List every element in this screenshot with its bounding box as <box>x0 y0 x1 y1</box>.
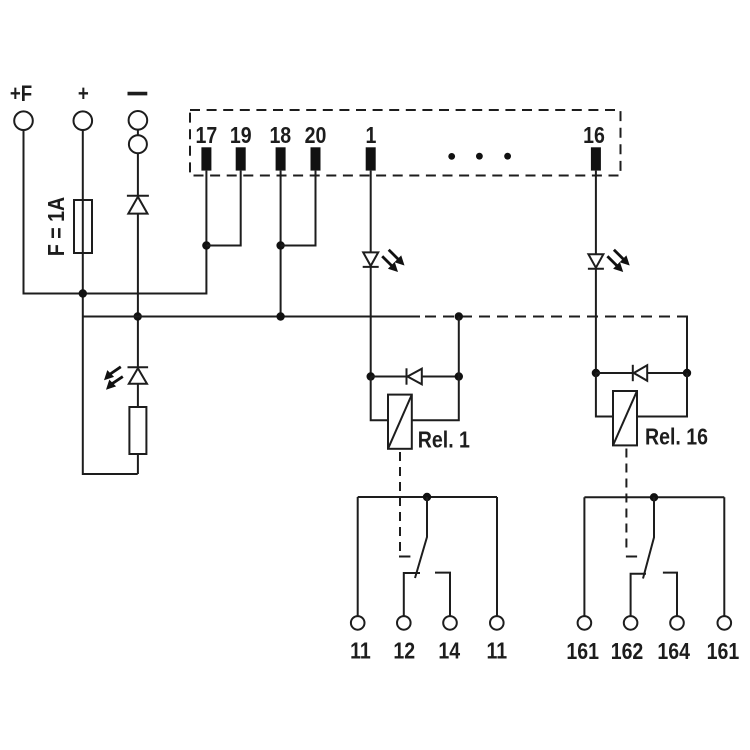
label 11 <box>350 638 371 664</box>
node: junction dot contact 16 common <box>650 493 658 501</box>
pin 20 label <box>305 123 327 149</box>
LED D2 triangle <box>129 368 147 384</box>
wire relay 1 coil left <box>371 377 388 421</box>
wire pin 18 down to bus B <box>280 171 282 317</box>
svg-text:+: + <box>78 83 89 107</box>
node: junction dot − / bus B <box>134 312 142 320</box>
LED D2 cathode bar <box>128 366 149 368</box>
node: junction dot LED16 / VD16 <box>592 369 600 377</box>
label 11b <box>486 638 507 664</box>
freewheel diode VD1 triangle <box>408 369 422 385</box>
wire contact 1 right to terminal 11b <box>496 497 498 616</box>
wire contact 16 right to terminal 161b <box>723 497 725 616</box>
terminal +F label <box>10 83 32 107</box>
wire relay 16 coil left <box>596 373 613 417</box>
wire pin 16 down to LED16 <box>595 171 597 255</box>
pin 1 label <box>366 123 377 149</box>
relay K1 label Rel. 1 <box>418 427 470 453</box>
svg-text:20: 20 <box>305 123 327 149</box>
LED D2 emission arrow a <box>104 367 121 380</box>
wire relay 16 coil right up to bus B corner <box>637 373 687 417</box>
relay coil K16 <box>613 391 637 445</box>
pin 18 label <box>269 123 291 149</box>
freewheel diode VD16 triangle <box>634 365 647 381</box>
label 12 <box>393 638 415 664</box>
terminal +F circle <box>14 111 33 130</box>
node: junction dot bus B / relay 1 return <box>455 312 463 320</box>
actuator tick relay 16 <box>626 556 637 558</box>
label 14 <box>438 638 460 664</box>
svg-text:19: 19 <box>230 123 252 149</box>
svg-text:12: 12 <box>393 638 415 664</box>
wire LED D2 to resistor R1 <box>137 384 139 407</box>
pin 19 label <box>230 123 252 149</box>
bus B solid segment <box>83 316 420 318</box>
svg-text:16: 16 <box>583 123 605 149</box>
LED16 emission arrow b <box>607 256 623 272</box>
fuse F = 1A body <box>74 200 92 253</box>
node: junction dot + / bus A <box>79 289 87 297</box>
LED16 cathode bar <box>588 268 604 270</box>
terminal − circle lower <box>129 135 147 153</box>
freewheel diode VD16 wire right <box>647 372 687 374</box>
freewheel diode VD1 wire left <box>371 376 407 378</box>
LED16 emission arrow a <box>614 250 630 266</box>
wire + down through fuse, bus A, bus B tee, to bottom corner joining resistor branch <box>83 130 138 474</box>
terminal circle 11 <box>351 616 365 630</box>
svg-text:17: 17 <box>196 123 218 149</box>
actuator tick relay 1 <box>399 556 410 558</box>
wire between − circles <box>137 130 139 135</box>
LED16 triangle <box>588 254 603 268</box>
contact 1 moving blade <box>415 497 427 578</box>
node: junction dot 18 / bus B <box>276 312 284 320</box>
contact 16 moving blade <box>643 497 654 578</box>
svg-text:+F: +F <box>10 83 32 107</box>
contact 1 common bar <box>358 496 497 498</box>
terminal circle 11b <box>490 616 504 630</box>
label 161b <box>707 638 740 664</box>
wire pin 19 to node 17/19 <box>206 171 240 246</box>
node: junction dot VD16 right <box>683 369 691 377</box>
LED1 emission arrow a <box>389 250 405 266</box>
svg-text:F = 1A: F = 1A <box>44 197 70 256</box>
node: junction dot LED1 / VD1 <box>367 372 375 380</box>
freewheel diode VD16 wire left <box>596 372 633 374</box>
LED1 emission arrow b <box>382 256 398 272</box>
pin 17 label <box>196 123 218 149</box>
svg-text:Rel. 16: Rel. 16 <box>645 424 708 450</box>
svg-text:11: 11 <box>350 638 371 664</box>
fuse value label F = 1A (rotated) <box>44 197 70 256</box>
fixed contact 162 <box>631 574 646 616</box>
pin 17 contact rect <box>201 147 211 170</box>
svg-text:161: 161 <box>707 638 740 664</box>
mechanical link relay 1 (dashed) <box>399 452 401 552</box>
terminal − label <box>128 92 148 96</box>
wire resistor R1 to bottom corner <box>137 454 139 474</box>
wire pin 17 down to node 17/19 <box>205 171 207 246</box>
terminal + circle <box>74 111 93 130</box>
freewheel diode VD1 wire right <box>422 376 459 378</box>
node: junction dot contact 1 common <box>423 493 431 501</box>
LED D2 emission arrow b <box>106 377 123 390</box>
pin 16 label <box>583 123 605 149</box>
diode D1 cathode bar <box>127 195 149 197</box>
terminal + label <box>78 83 89 107</box>
svg-text:164: 164 <box>657 638 690 664</box>
wire +F down to bus A and up to node 17/19 <box>24 130 207 294</box>
LED1 triangle <box>363 252 378 266</box>
terminal circle 162 <box>624 616 638 630</box>
terminal circle 14 <box>443 616 457 630</box>
pin 16 contact rect <box>591 147 601 170</box>
fixed contact 14 <box>435 573 450 617</box>
svg-text:Rel. 1: Rel. 1 <box>418 427 470 453</box>
pin 18 contact rect <box>276 147 286 170</box>
wire pin 1 down to LED1 <box>370 171 372 253</box>
label 162 <box>611 638 644 664</box>
terminal circle 164 <box>670 616 684 630</box>
wire − down to diode D1 <box>137 153 139 196</box>
pin 20 contact rect <box>311 147 321 170</box>
bus B right corner solid stub <box>678 317 687 374</box>
bus B dashed segment <box>425 316 687 318</box>
freewheel diode VD1 cathode bar <box>406 368 408 384</box>
contact 16 common bar <box>584 496 724 498</box>
svg-text:14: 14 <box>438 638 460 664</box>
svg-text:1: 1 <box>366 123 377 149</box>
fixed contact 164 <box>663 573 677 617</box>
ellipsis dots between pin 1 and pin 16 <box>448 153 511 160</box>
wire pin 20 to node 18/20 <box>281 171 316 246</box>
svg-text:18: 18 <box>269 123 291 149</box>
terminal circle 161 <box>578 616 592 630</box>
wire contact 16 left to terminal 161 <box>583 497 585 616</box>
pin 1 contact rect <box>366 147 376 170</box>
resistor R1 body <box>129 407 146 454</box>
relay K16 label Rel. 16 <box>645 424 708 450</box>
mechanical link relay 16 (dashed) <box>625 449 627 553</box>
wire D1 to bus B and down to LED D2 <box>137 214 139 368</box>
LED1 cathode bar <box>363 266 379 268</box>
node: junction dot 18/20 <box>276 241 284 249</box>
freewheel diode VD16 cathode bar <box>632 365 634 381</box>
dashed terminal strip box <box>190 110 621 176</box>
label 161 <box>566 638 599 664</box>
pin 19 contact rect <box>236 147 246 170</box>
relay coil K1 <box>388 395 412 449</box>
wire contact 1 left to terminal 11 <box>357 497 359 616</box>
svg-text:162: 162 <box>611 638 644 664</box>
terminal − circle upper <box>129 111 148 130</box>
label 164 <box>657 638 690 664</box>
terminal circle 161b <box>718 616 732 630</box>
fixed contact 12 <box>404 573 420 616</box>
wire relay 1 coil right up to bus B <box>412 317 459 421</box>
svg-text:161: 161 <box>566 638 599 664</box>
wire LED1 down across bus B to freewheel diode node <box>370 267 372 377</box>
diode D1 triangle <box>128 197 147 214</box>
terminal circle 12 <box>397 616 411 630</box>
svg-text:11: 11 <box>486 638 507 664</box>
node: junction dot VD1 right <box>455 372 463 380</box>
wire LED16 down across bus B to freewheel diode node <box>595 269 597 373</box>
node: junction dot 17/19 <box>202 241 210 249</box>
